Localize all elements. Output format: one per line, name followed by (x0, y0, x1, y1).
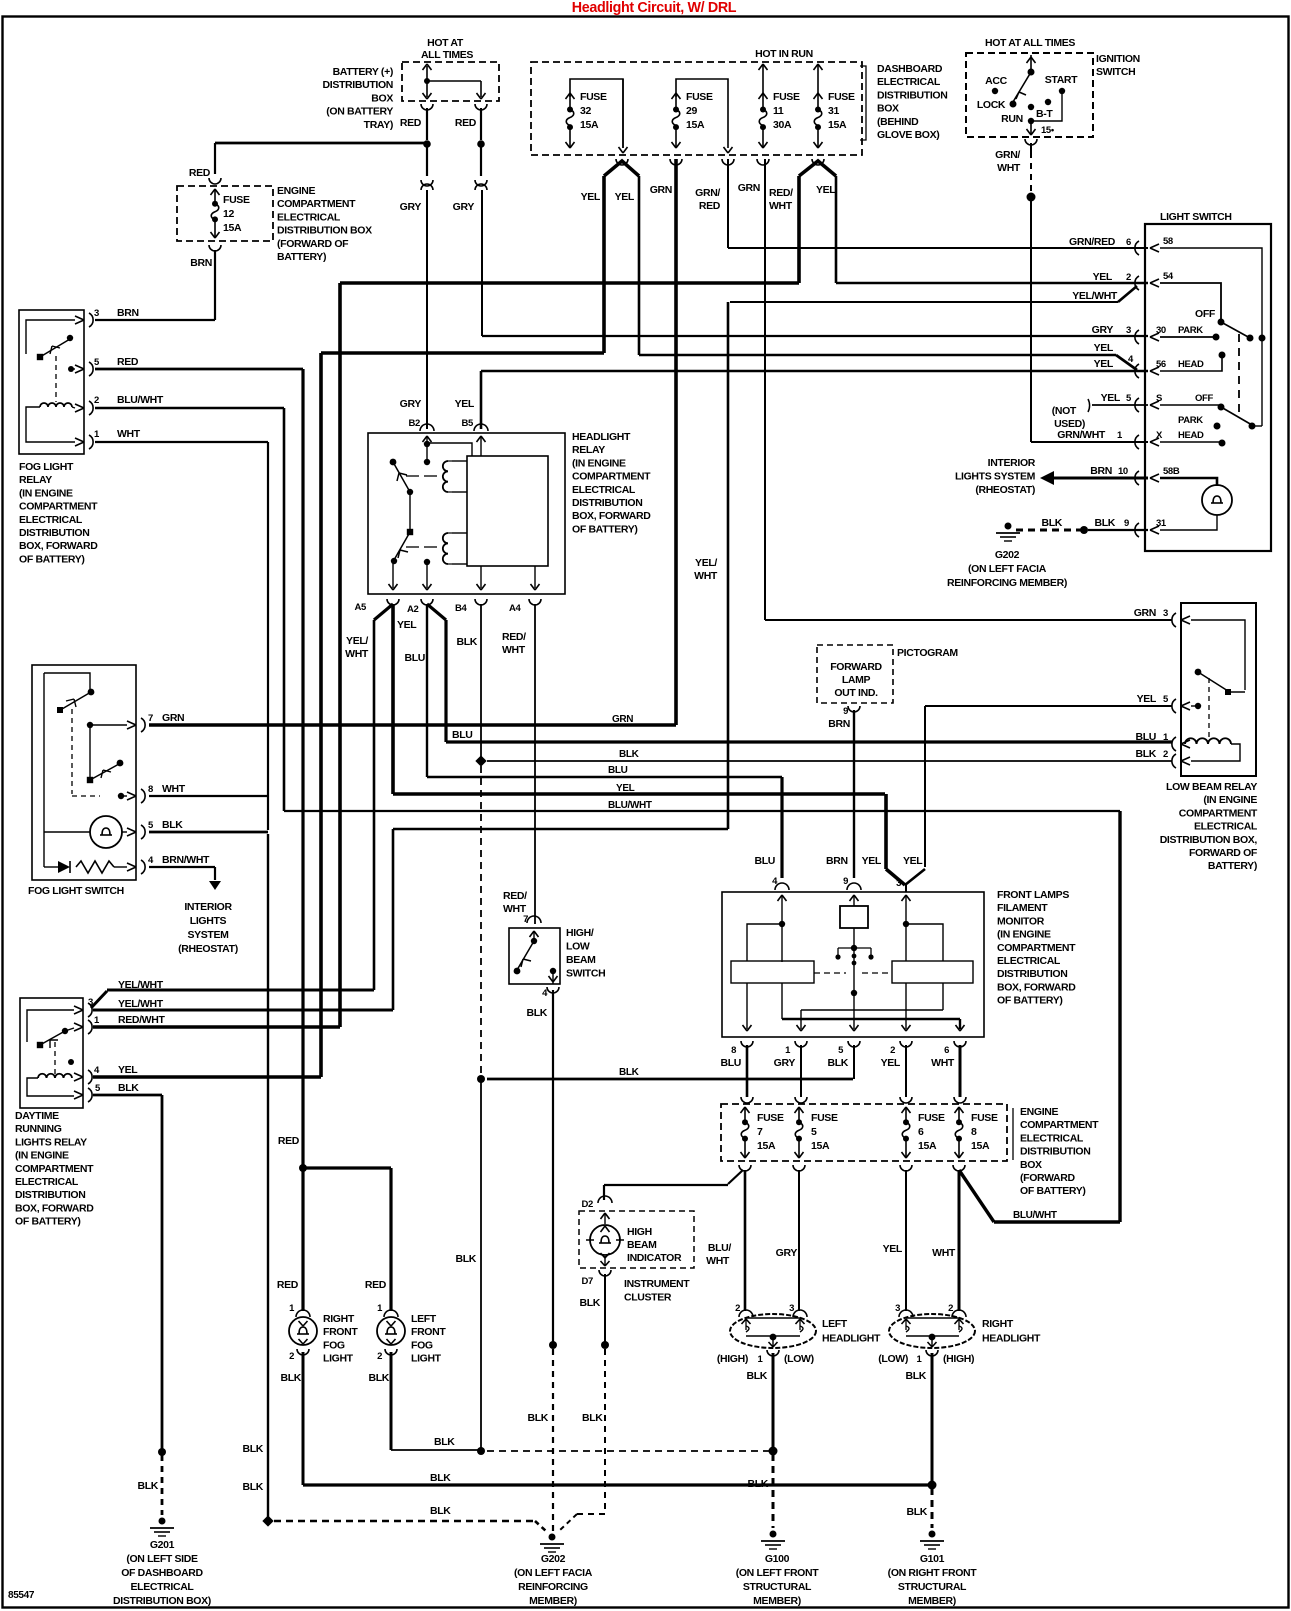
svg-text:BLU: BLU (608, 765, 628, 776)
svg-text:YEL/: YEL/ (346, 635, 368, 647)
svg-text:WHT: WHT (694, 570, 718, 582)
svg-text:GRN/WHT: GRN/WHT (1057, 429, 1106, 441)
svg-text:OF BATTERY): OF BATTERY) (19, 553, 85, 565)
svg-text:BLU: BLU (404, 652, 425, 664)
svg-text:BLK: BLK (579, 1297, 600, 1309)
svg-text:BLU/WHT: BLU/WHT (1013, 1210, 1057, 1221)
svg-text:BRN: BRN (826, 855, 848, 867)
svg-text:G202: G202 (541, 1553, 566, 1565)
svg-text:BRN: BRN (190, 257, 212, 269)
svg-text:DISTRIBUTION: DISTRIBUTION (877, 89, 947, 101)
svg-text:YEL/: YEL/ (695, 557, 717, 569)
svg-text:COMPARTMENT: COMPARTMENT (572, 471, 651, 483)
svg-text:15A: 15A (580, 119, 599, 131)
svg-text:BLK: BLK (456, 636, 477, 648)
svg-text:REINFORCING: REINFORCING (518, 1581, 588, 1593)
svg-text:BATTERY): BATTERY) (1208, 860, 1257, 872)
svg-text:IGNITION: IGNITION (1096, 53, 1140, 65)
svg-text:(LOW): (LOW) (784, 1353, 814, 1365)
svg-text:PICTOGRAM: PICTOGRAM (897, 647, 958, 659)
svg-text:YEL: YEL (1093, 271, 1113, 283)
svg-text:COMPARTMENT: COMPARTMENT (15, 1163, 94, 1175)
svg-text:FUSE: FUSE (686, 91, 713, 103)
svg-text:LEFT: LEFT (822, 1318, 848, 1330)
svg-text:YEL: YEL (1094, 358, 1114, 370)
svg-text:G202: G202 (995, 549, 1020, 561)
svg-text:BOX, FORWARD: BOX, FORWARD (19, 540, 98, 552)
svg-text:YEL/WHT: YEL/WHT (1072, 290, 1118, 302)
svg-text:GRY: GRY (400, 398, 422, 410)
svg-text:DISTRIBUTION: DISTRIBUTION (19, 527, 89, 539)
svg-text:3: 3 (895, 1303, 900, 1314)
svg-text:SWITCH: SWITCH (566, 968, 605, 980)
svg-text:ENGINE: ENGINE (1020, 1106, 1059, 1118)
svg-text:ALL TIMES: ALL TIMES (421, 49, 473, 61)
svg-text:32: 32 (580, 105, 591, 117)
svg-text:OUT IND.: OUT IND. (834, 687, 878, 699)
svg-text:9: 9 (843, 876, 848, 887)
svg-text:LIGHTS SYSTEM: LIGHTS SYSTEM (955, 471, 1036, 483)
svg-text:GRY: GRY (453, 201, 475, 213)
svg-text:FORWARD OF: FORWARD OF (1189, 847, 1258, 859)
svg-text:(NOT: (NOT (1052, 405, 1077, 417)
svg-text:7: 7 (757, 1126, 763, 1138)
svg-text:ELECTRICAL: ELECTRICAL (131, 1581, 195, 1593)
svg-text:6: 6 (918, 1126, 924, 1138)
svg-text:MONITOR: MONITOR (997, 915, 1045, 927)
svg-text:BLK: BLK (242, 1443, 263, 1455)
svg-text:GLOVE BOX): GLOVE BOX) (877, 129, 939, 141)
svg-text:58B: 58B (1163, 466, 1180, 477)
svg-text:BATTERY (+): BATTERY (+) (333, 66, 393, 78)
svg-text:GRN: GRN (612, 714, 633, 725)
svg-text:LIGHTS: LIGHTS (190, 915, 227, 927)
svg-text:FUSE: FUSE (223, 194, 250, 206)
svg-text:BLK: BLK (455, 1253, 476, 1265)
svg-text:Headlight Circuit, W/ DRL: Headlight Circuit, W/ DRL (572, 0, 737, 16)
svg-text:GRY: GRY (400, 201, 422, 213)
svg-text:SYSTEM: SYSTEM (187, 929, 229, 941)
svg-text:A5: A5 (355, 602, 368, 613)
svg-text:BOX, FORWARD: BOX, FORWARD (997, 981, 1076, 993)
svg-text:2: 2 (377, 1351, 382, 1362)
svg-text:RELAY: RELAY (19, 474, 52, 486)
svg-text:(IN ENGINE: (IN ENGINE (572, 457, 626, 469)
svg-text:BLK: BLK (582, 1412, 603, 1424)
svg-text:3: 3 (1163, 608, 1168, 619)
svg-text:BOX: BOX (371, 92, 393, 104)
svg-text:BLU: BLU (452, 729, 473, 741)
svg-text:RED: RED (277, 1279, 299, 1291)
svg-text:8: 8 (971, 1126, 977, 1138)
svg-text:BLK: BLK (280, 1372, 301, 1384)
svg-text:YEL: YEL (1094, 342, 1114, 354)
svg-text:LIGHT: LIGHT (323, 1353, 354, 1365)
svg-text:YEL: YEL (883, 1243, 903, 1255)
svg-text:FOG LIGHT SWITCH: FOG LIGHT SWITCH (28, 885, 124, 897)
svg-text:X: X (1156, 430, 1163, 441)
svg-text:30A: 30A (773, 119, 792, 131)
svg-text:YEL: YEL (397, 619, 417, 631)
svg-text:FILAMENT: FILAMENT (997, 902, 1048, 914)
svg-text:DISTRIBUTION: DISTRIBUTION (997, 968, 1067, 980)
svg-text:6: 6 (944, 1045, 949, 1056)
svg-text:7: 7 (148, 713, 153, 724)
svg-text:A2: A2 (407, 604, 419, 615)
svg-text:WHT: WHT (706, 1255, 730, 1267)
svg-text:31: 31 (1156, 518, 1167, 529)
svg-text:(HIGH): (HIGH) (943, 1353, 974, 1365)
svg-text:BATTERY): BATTERY) (277, 251, 326, 263)
svg-text:YEL: YEL (118, 1064, 138, 1076)
svg-text:HOT AT ALL TIMES: HOT AT ALL TIMES (985, 37, 1075, 49)
svg-text:BLK: BLK (526, 1007, 547, 1019)
svg-text:HEAD: HEAD (1178, 359, 1204, 370)
svg-text:BLU/WHT: BLU/WHT (608, 800, 652, 811)
svg-text:(FORWARD OF: (FORWARD OF (277, 238, 349, 250)
svg-text:RED: RED (117, 356, 139, 368)
svg-text:BLK: BLK (242, 1481, 263, 1493)
svg-text:54: 54 (1163, 271, 1174, 282)
svg-text:LEFT: LEFT (411, 1313, 437, 1325)
svg-text:GRN: GRN (650, 184, 672, 196)
svg-text:OFF: OFF (1195, 393, 1213, 404)
svg-text:BLK: BLK (162, 819, 183, 831)
svg-text:12: 12 (223, 208, 234, 220)
svg-text:BLK: BLK (430, 1472, 451, 1484)
svg-text:29: 29 (686, 105, 697, 117)
svg-text:GRN: GRN (1134, 607, 1156, 619)
svg-text:RED: RED (699, 200, 721, 212)
svg-text:BLK: BLK (905, 1370, 926, 1382)
svg-text:3: 3 (94, 308, 99, 319)
svg-text:85547: 85547 (8, 1590, 35, 1601)
svg-text:RED: RED (278, 1135, 300, 1147)
svg-text:15A: 15A (686, 119, 705, 131)
svg-text:RED: RED (365, 1279, 387, 1291)
svg-text:(RHEOSTAT): (RHEOSTAT) (975, 484, 1035, 496)
svg-text:BLK: BLK (527, 1412, 548, 1424)
svg-text:(ON LEFT FRONT: (ON LEFT FRONT (736, 1567, 820, 1579)
svg-text:ELECTRICAL: ELECTRICAL (19, 514, 83, 526)
svg-text:YEL: YEL (903, 855, 923, 867)
svg-text:A4: A4 (509, 603, 522, 614)
svg-text:BRN: BRN (1090, 465, 1112, 477)
svg-text:COMPARTMENT: COMPARTMENT (277, 198, 356, 210)
svg-text:(ON BATTERY: (ON BATTERY (326, 106, 393, 118)
svg-text:RIGHT: RIGHT (323, 1313, 355, 1325)
svg-text:YEL/WHT: YEL/WHT (118, 998, 164, 1010)
svg-text:RED/: RED/ (769, 187, 793, 199)
svg-text:FRONT: FRONT (411, 1326, 446, 1338)
svg-text:BLU: BLU (1135, 731, 1156, 743)
svg-text:9: 9 (1124, 518, 1129, 529)
svg-text:GRY: GRY (1092, 324, 1114, 336)
svg-text:(ON LEFT SIDE: (ON LEFT SIDE (126, 1553, 198, 1565)
svg-text:OF BATTERY): OF BATTERY) (572, 523, 638, 535)
svg-text:6: 6 (1126, 237, 1131, 248)
svg-text:BLK: BLK (619, 1067, 640, 1078)
svg-text:BLK: BLK (746, 1370, 767, 1382)
svg-text:(LOW): (LOW) (878, 1353, 908, 1365)
svg-text:MEMBER): MEMBER) (753, 1595, 801, 1607)
svg-text:FRONT LAMPS: FRONT LAMPS (997, 889, 1069, 901)
svg-text:INTERIOR: INTERIOR (988, 457, 1036, 469)
svg-text:GRY: GRY (774, 1057, 796, 1069)
svg-text:ELECTRICAL: ELECTRICAL (1194, 821, 1258, 833)
svg-text:FUSE: FUSE (971, 1112, 998, 1124)
svg-text:B-T: B-T (1036, 108, 1053, 120)
svg-text:BEAM: BEAM (627, 1239, 657, 1251)
svg-text:COMPARTMENT: COMPARTMENT (19, 501, 98, 513)
svg-text:BRN: BRN (117, 307, 139, 319)
svg-text:2: 2 (94, 395, 99, 406)
svg-text:2: 2 (948, 1303, 953, 1314)
svg-text:GRY: GRY (776, 1247, 798, 1259)
svg-text:9: 9 (843, 706, 848, 717)
svg-text:BRN: BRN (828, 718, 850, 730)
svg-text:FRONT: FRONT (323, 1326, 358, 1338)
svg-text:8: 8 (148, 784, 153, 795)
svg-text:5: 5 (811, 1126, 817, 1138)
svg-text:WHT: WHT (345, 648, 369, 660)
svg-text:COMPARTMENT: COMPARTMENT (997, 942, 1076, 954)
svg-text:YEL: YEL (615, 191, 635, 203)
svg-text:GRN: GRN (738, 182, 760, 194)
svg-text:RED: RED (455, 117, 477, 129)
svg-text:15•: 15• (1041, 125, 1055, 136)
svg-text:HOT IN RUN: HOT IN RUN (755, 48, 813, 60)
svg-text:(ON LEFT FACIA: (ON LEFT FACIA (514, 1567, 593, 1579)
svg-text:(BEHIND: (BEHIND (877, 116, 919, 128)
svg-text:ELECTRICAL: ELECTRICAL (997, 955, 1061, 967)
svg-text:B4: B4 (455, 603, 468, 614)
svg-text:BLK: BLK (430, 1505, 451, 1517)
svg-text:INDICATOR: INDICATOR (627, 1252, 682, 1264)
svg-text:(FORWARD: (FORWARD (1020, 1172, 1076, 1184)
svg-text:2: 2 (735, 1303, 740, 1314)
svg-text:WHT: WHT (117, 428, 141, 440)
svg-text:HEADLIGHT: HEADLIGHT (572, 431, 631, 443)
svg-text:ENGINE: ENGINE (277, 185, 316, 197)
svg-text:3: 3 (896, 878, 901, 889)
svg-text:S: S (1156, 393, 1162, 404)
svg-text:BLU: BLU (720, 1057, 741, 1069)
svg-text:YEL: YEL (862, 855, 882, 867)
svg-text:(IN ENGINE: (IN ENGINE (997, 929, 1051, 941)
svg-text:G201: G201 (150, 1539, 175, 1551)
svg-text:3: 3 (1126, 325, 1131, 336)
svg-text:56: 56 (1156, 359, 1166, 370)
svg-text:30: 30 (1156, 325, 1166, 336)
svg-text:PARK: PARK (1178, 415, 1203, 426)
svg-text:BLK: BLK (434, 1436, 455, 1448)
svg-text:G100: G100 (765, 1553, 790, 1565)
svg-text:ELECTRICAL: ELECTRICAL (15, 1176, 79, 1188)
svg-text:10: 10 (1118, 466, 1128, 477)
svg-text:LIGHT: LIGHT (411, 1353, 442, 1365)
svg-text:DASHBOARD: DASHBOARD (877, 63, 943, 75)
svg-text:BLK: BLK (906, 1506, 927, 1518)
svg-text:OF BATTERY): OF BATTERY) (997, 995, 1063, 1007)
svg-text:FOG: FOG (411, 1339, 433, 1351)
svg-text:LOCK: LOCK (977, 99, 1006, 111)
svg-text:RED: RED (189, 167, 211, 179)
svg-text:GRN: GRN (162, 712, 184, 724)
svg-text:D7: D7 (582, 1276, 594, 1287)
svg-text:BLK: BLK (137, 1480, 158, 1492)
svg-text:58: 58 (1163, 236, 1173, 247)
svg-text:STRUCTURAL: STRUCTURAL (898, 1581, 967, 1593)
svg-text:RUNNING: RUNNING (15, 1123, 62, 1135)
svg-text:B5: B5 (462, 418, 475, 429)
svg-text:(IN ENGINE: (IN ENGINE (1203, 794, 1257, 806)
svg-text:2: 2 (1126, 272, 1131, 283)
svg-text:15A: 15A (757, 1140, 776, 1152)
svg-text:BLK: BLK (118, 1082, 139, 1094)
svg-text:HEADLIGHT: HEADLIGHT (822, 1333, 881, 1345)
svg-text:BLK: BLK (1094, 517, 1115, 529)
svg-text:WHT: WHT (502, 644, 526, 656)
svg-text:FOG LIGHT: FOG LIGHT (19, 461, 74, 473)
svg-text:2: 2 (1163, 749, 1168, 760)
svg-text:ACC: ACC (985, 75, 1007, 87)
svg-text:BRN/WHT: BRN/WHT (162, 854, 210, 866)
svg-text:HOT AT: HOT AT (427, 37, 464, 49)
svg-text:RED/WHT: RED/WHT (118, 1014, 165, 1026)
svg-text:ELECTRICAL: ELECTRICAL (572, 484, 636, 496)
svg-text:WHT: WHT (162, 783, 186, 795)
svg-text:BOX, FORWARD: BOX, FORWARD (572, 510, 651, 522)
svg-text:BLK: BLK (827, 1057, 848, 1069)
svg-text:BLK: BLK (1041, 517, 1062, 529)
svg-text:SWITCH: SWITCH (1096, 66, 1135, 78)
svg-text:OF DASHBOARD: OF DASHBOARD (121, 1567, 203, 1579)
svg-text:YEL: YEL (816, 184, 836, 196)
svg-text:15A: 15A (828, 119, 847, 131)
svg-text:BOX: BOX (877, 103, 899, 115)
svg-text:CLUSTER: CLUSTER (624, 1292, 672, 1304)
svg-text:BEAM: BEAM (566, 954, 596, 966)
svg-text:(IN ENGINE: (IN ENGINE (15, 1150, 69, 1162)
svg-text:LIGHT SWITCH: LIGHT SWITCH (1160, 211, 1232, 223)
svg-text:BLU/WHT: BLU/WHT (117, 394, 164, 406)
svg-text:15A: 15A (811, 1140, 830, 1152)
svg-text:FORWARD: FORWARD (830, 661, 882, 673)
svg-text:BLK: BLK (1135, 748, 1156, 760)
svg-text:2: 2 (289, 1351, 294, 1362)
svg-text:ELECTRICAL: ELECTRICAL (1020, 1132, 1084, 1144)
svg-text:(HIGH): (HIGH) (717, 1353, 748, 1365)
svg-text:LIGHTS RELAY: LIGHTS RELAY (15, 1136, 87, 1148)
svg-text:BLK: BLK (619, 749, 640, 760)
svg-text:COMPARTMENT: COMPARTMENT (1020, 1119, 1099, 1131)
svg-text:OF BATTERY): OF BATTERY) (15, 1216, 81, 1228)
svg-text:(ON LEFT FACIA: (ON LEFT FACIA (968, 563, 1047, 575)
svg-text:FUSE: FUSE (580, 91, 607, 103)
svg-text:DISTRIBUTION BOX): DISTRIBUTION BOX) (113, 1595, 211, 1607)
svg-text:FUSE: FUSE (773, 91, 800, 103)
svg-text:15A: 15A (223, 222, 242, 234)
svg-text:COMPARTMENT: COMPARTMENT (1179, 807, 1258, 819)
svg-text:DISTRIBUTION: DISTRIBUTION (572, 497, 642, 509)
svg-text:31: 31 (828, 105, 839, 117)
svg-text:D2: D2 (582, 1199, 594, 1210)
svg-text:YEL: YEL (616, 783, 635, 794)
svg-text:3: 3 (789, 1303, 794, 1314)
svg-text:15A: 15A (971, 1140, 990, 1152)
svg-text:INTERIOR: INTERIOR (184, 901, 232, 913)
svg-text:YEL: YEL (1101, 392, 1121, 404)
svg-text:11: 11 (773, 105, 784, 117)
svg-text:DISTRIBUTION BOX,: DISTRIBUTION BOX, (1160, 834, 1258, 846)
svg-text:YEL: YEL (455, 398, 475, 410)
svg-text:DISTRIBUTION: DISTRIBUTION (1020, 1146, 1090, 1158)
svg-text:(IN ENGINE: (IN ENGINE (19, 487, 73, 499)
svg-text:DISTRIBUTION: DISTRIBUTION (15, 1189, 85, 1201)
svg-text:(RHEOSTAT): (RHEOSTAT) (178, 943, 238, 955)
svg-text:ELECTRICAL: ELECTRICAL (877, 76, 941, 88)
svg-text:RIGHT: RIGHT (982, 1318, 1014, 1330)
svg-text:GRN/: GRN/ (995, 149, 1020, 161)
svg-text:15A: 15A (918, 1140, 937, 1152)
svg-text:(ON RIGHT FRONT: (ON RIGHT FRONT (888, 1567, 978, 1579)
svg-text:FUSE: FUSE (757, 1112, 784, 1124)
svg-text:INSTRUMENT: INSTRUMENT (624, 1278, 690, 1290)
svg-text:WHT: WHT (769, 200, 793, 212)
svg-text:RELAY: RELAY (572, 444, 605, 456)
svg-text:YEL: YEL (1137, 693, 1157, 705)
svg-text:TRAY): TRAY) (364, 119, 393, 131)
svg-text:HEAD: HEAD (1178, 430, 1204, 441)
svg-text:MEMBER): MEMBER) (908, 1595, 956, 1607)
svg-text:HIGH: HIGH (627, 1226, 652, 1238)
svg-text:WHT: WHT (932, 1247, 956, 1259)
svg-text:8: 8 (731, 1045, 736, 1056)
svg-text:REINFORCING MEMBER): REINFORCING MEMBER) (947, 577, 1067, 589)
svg-text:WHT: WHT (997, 162, 1021, 174)
svg-text:RED: RED (400, 117, 422, 129)
svg-text:LOW: LOW (566, 941, 590, 953)
svg-text:FOG: FOG (323, 1339, 345, 1351)
svg-text:RUN: RUN (1001, 113, 1023, 125)
svg-text:DAYTIME: DAYTIME (15, 1110, 59, 1122)
svg-text:LAMP: LAMP (842, 674, 871, 686)
svg-text:OFF: OFF (1195, 308, 1216, 320)
svg-text:G101: G101 (920, 1553, 945, 1565)
svg-text:OF BATTERY): OF BATTERY) (1020, 1185, 1086, 1197)
svg-text:START: START (1045, 74, 1078, 86)
svg-text:BLK: BLK (368, 1372, 389, 1384)
svg-text:BOX: BOX (1020, 1159, 1042, 1171)
svg-text:HEADLIGHT: HEADLIGHT (982, 1333, 1041, 1345)
svg-text:DISTRIBUTION BOX: DISTRIBUTION BOX (277, 225, 372, 237)
svg-text:FUSE: FUSE (828, 91, 855, 103)
svg-text:LOW BEAM RELAY: LOW BEAM RELAY (1166, 781, 1257, 793)
svg-text:FUSE: FUSE (811, 1112, 838, 1124)
svg-text:2: 2 (890, 1045, 895, 1056)
svg-text:HIGH/: HIGH/ (566, 927, 594, 939)
svg-text:BLK: BLK (747, 1478, 768, 1490)
svg-text:ELECTRICAL: ELECTRICAL (277, 211, 341, 223)
svg-text:PARK: PARK (1178, 325, 1203, 336)
svg-text:WHT: WHT (931, 1057, 955, 1069)
svg-text:MEMBER): MEMBER) (529, 1595, 577, 1607)
svg-text:B2: B2 (409, 418, 421, 429)
svg-text:RED/: RED/ (502, 631, 526, 643)
svg-text:BLU: BLU (754, 855, 775, 867)
svg-text:RED/: RED/ (503, 890, 527, 902)
